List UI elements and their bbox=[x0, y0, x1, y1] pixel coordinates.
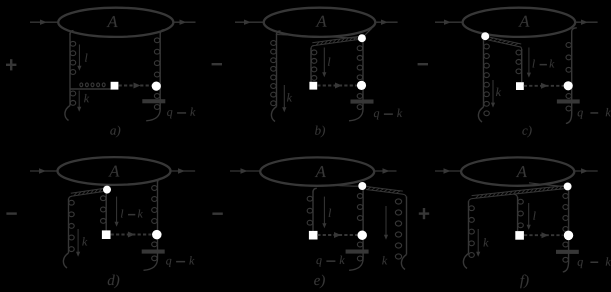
stretched gluon diagonal diagram f bbox=[472, 186, 564, 196]
vertex dot top diagram f bbox=[564, 182, 572, 190]
vertex dot diagram a bbox=[152, 82, 161, 91]
label c) bbox=[522, 126, 531, 138]
gluon middle (l) diagram f bbox=[514, 194, 517, 198]
blob A diagram c bbox=[463, 8, 576, 37]
blob A diagram f bbox=[461, 157, 574, 185]
outgoing line diagram f bbox=[574, 170, 597, 172]
gluon right diagram c bbox=[572, 28, 577, 32]
dashed arrow diagram a bbox=[119, 85, 152, 87]
dashed arrow diagram b bbox=[317, 85, 357, 87]
vertex square diagram e bbox=[309, 231, 318, 240]
label q-k diagram c bbox=[578, 108, 611, 119]
cut bars diagram c bbox=[557, 99, 580, 103]
cut bars diagram a bbox=[142, 99, 165, 103]
label q-k diagram a bbox=[167, 107, 195, 118]
label l diagram e bbox=[329, 209, 331, 217]
dashed arrow diagram d bbox=[111, 234, 152, 236]
gluon right diagram d bbox=[158, 178, 163, 182]
label q-k diagram b bbox=[374, 109, 402, 120]
gluon middle (l) diagram b bbox=[310, 48, 312, 82]
label l diagram b bbox=[328, 57, 330, 65]
sign + before diagram f bbox=[419, 212, 429, 214]
label a) bbox=[110, 126, 120, 138]
cut bars diagram b bbox=[351, 100, 374, 104]
label l diagram a bbox=[85, 53, 87, 61]
vertex dot right diagram c bbox=[564, 81, 573, 90]
label l-k diagram d bbox=[121, 210, 143, 218]
vertex dot top diagram b bbox=[358, 34, 366, 42]
horizontal gluon diagram a bbox=[70, 88, 111, 90]
label b) bbox=[315, 126, 325, 138]
outgoing line diagram e bbox=[374, 170, 396, 172]
label f) bbox=[520, 274, 529, 288]
gluon left (k) diagram c bbox=[483, 40, 485, 107]
label q-k diagram d bbox=[166, 256, 194, 267]
cut bars diagram f bbox=[556, 250, 579, 254]
dashed arrow diagram c bbox=[524, 85, 564, 87]
gluon left (l) diagram e bbox=[313, 188, 317, 192]
vertex dot top diagram e bbox=[358, 182, 366, 190]
dashed arrow diagram f bbox=[524, 234, 563, 236]
label k diagram c bbox=[496, 88, 501, 96]
label q-k diagram e bbox=[316, 256, 344, 267]
label k diagram d bbox=[82, 237, 87, 245]
stretched gluon diagonal diagram b bbox=[312, 37, 358, 43]
gluon right attach diagram b bbox=[363, 28, 371, 36]
incoming line diagram e bbox=[230, 170, 260, 172]
momentum arrow k diagram c bbox=[492, 80, 494, 104]
label e) bbox=[314, 275, 325, 289]
blob A diagram d bbox=[58, 157, 171, 185]
eikonal thin line diagram b bbox=[277, 35, 358, 39]
incoming line diagram b bbox=[235, 21, 263, 23]
gluon right diagram f bbox=[568, 190, 570, 261]
sign - before diagram c bbox=[418, 63, 428, 65]
sign - before diagram e bbox=[212, 213, 222, 215]
momentum arrow l-k diagram d bbox=[116, 197, 118, 224]
gluon far right (k) diagram e bbox=[406, 197, 408, 255]
momentum arrow l diagram b bbox=[323, 48, 325, 75]
vertex dot top diagram d bbox=[103, 186, 111, 194]
label q-k diagram f bbox=[578, 257, 611, 268]
blob edge to dot connector diagram e bbox=[332, 185, 359, 186]
label l diagram f bbox=[533, 211, 535, 219]
momentum arrow l diagram f bbox=[528, 203, 530, 226]
outgoing line diagram b bbox=[375, 21, 397, 23]
stretched gluon diagonal diagram d bbox=[71, 189, 103, 194]
vertex dot right diagram e bbox=[357, 230, 367, 240]
incoming line diagram d bbox=[30, 170, 58, 172]
blob A diagram b bbox=[264, 8, 376, 37]
incoming line diagram a bbox=[30, 21, 58, 23]
gluon right diagram e bbox=[362, 190, 364, 259]
gluon left (k) diagram f bbox=[468, 201, 470, 253]
vertex dot right diagram b bbox=[357, 81, 366, 90]
incoming line diagram c bbox=[435, 21, 463, 23]
momentum arrow l diagram a bbox=[78, 45, 80, 68]
momentum arrow k diagram e bbox=[385, 206, 387, 237]
vertex square diagram b bbox=[309, 82, 317, 90]
gluon right diagram a bbox=[160, 30, 166, 34]
vertex dot top-left diagram c bbox=[481, 32, 489, 40]
label k diagram a bbox=[84, 94, 89, 102]
vertex dot right diagram f bbox=[564, 231, 574, 241]
gluon left (k) diagram d bbox=[68, 199, 70, 253]
label d) bbox=[108, 275, 120, 289]
momentum arrow l-k diagram c bbox=[528, 48, 530, 75]
momentum arrow k diagram b bbox=[283, 85, 285, 109]
vertex square diagram a bbox=[111, 82, 119, 90]
momentum arrow k diagram a bbox=[78, 91, 80, 109]
blob A diagram e bbox=[260, 157, 374, 185]
stretched gluon diagonal diagram e bbox=[366, 190, 403, 195]
cut bars diagram d bbox=[142, 250, 165, 254]
vertex square diagram d bbox=[102, 230, 111, 239]
momentum arrow k diagram d bbox=[77, 229, 79, 254]
outgoing line diagram d bbox=[171, 170, 196, 172]
gluon left (k) diagram b bbox=[277, 31, 281, 35]
incoming line diagram f bbox=[435, 170, 461, 172]
cut bars diagram e bbox=[346, 250, 369, 254]
label k diagram b bbox=[287, 93, 292, 101]
vertex square diagram c bbox=[516, 82, 524, 90]
dashed arrow diagram e bbox=[317, 234, 357, 236]
gluon middle (l-k) diagram d bbox=[105, 194, 107, 231]
vertex square diagram f bbox=[515, 231, 524, 240]
gluon right diagram b bbox=[362, 40, 364, 109]
blob edge to dot connector diagram f bbox=[529, 183, 564, 187]
stretched gluon diagonal diagram c bbox=[488, 40, 520, 47]
momentum arrow l diagram e bbox=[323, 197, 325, 225]
gluon left (l,k) diagram a bbox=[70, 31, 74, 35]
label k diagram e bbox=[382, 256, 387, 264]
sign - before diagram b bbox=[212, 63, 222, 65]
outgoing line diagram c bbox=[575, 21, 597, 23]
vertex dot right diagram d bbox=[152, 230, 162, 240]
label l-k diagram c bbox=[533, 60, 555, 68]
blob A diagram a bbox=[58, 8, 173, 37]
outgoing line diagram a bbox=[174, 21, 196, 23]
sign - before diagram d bbox=[6, 212, 16, 214]
momentum arrow k diagram f bbox=[477, 229, 479, 254]
sign + before diagram a bbox=[6, 64, 16, 66]
label k diagram f bbox=[483, 238, 488, 246]
gluon middle (l-k) diagram c bbox=[521, 49, 523, 82]
